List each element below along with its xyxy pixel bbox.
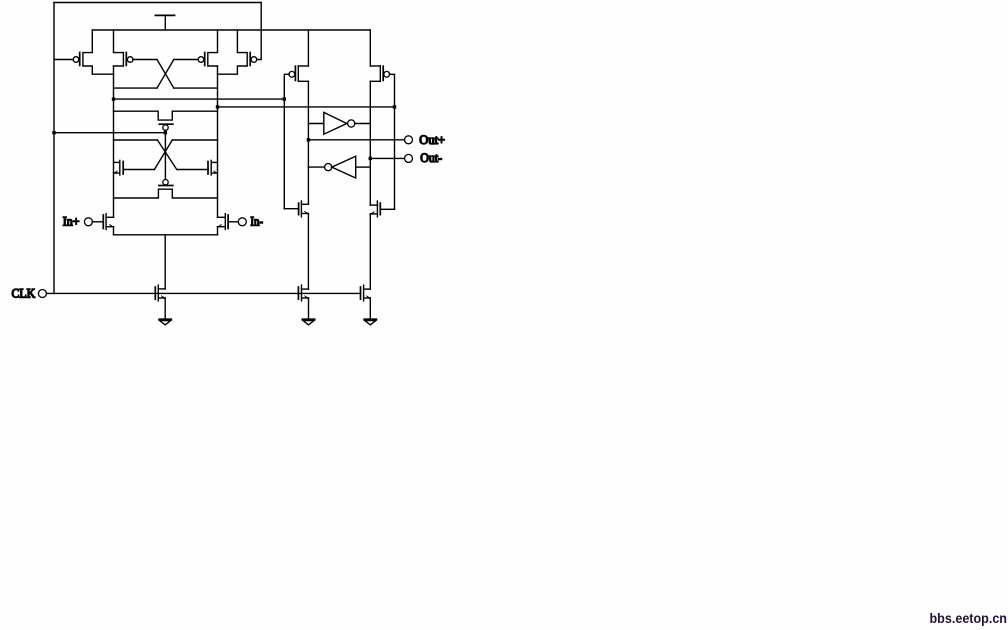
wire: M12 gate to node B bus (390, 74, 395, 209)
wire: PMOS cross-coupling X diagonal 2 (157, 60, 174, 89)
terminal CLK (38, 290, 46, 298)
wire: left CLK rail vertical (53, 3, 55, 294)
ground symbol 3 (364, 318, 376, 320)
bubble M6 gate (163, 180, 168, 185)
terminal In- (238, 218, 246, 226)
bubble U1 output (348, 120, 355, 127)
wire: latch right rail node B (217, 66, 219, 217)
wire: outer CLK loop top rail (54, 2, 261, 4)
wire: right CLK loop vertical (257, 3, 262, 60)
svg-text:In+: In+ (63, 213, 80, 228)
junction dot on CLK rail (52, 131, 55, 134)
wire: X bottom left segment to node A (114, 87, 158, 89)
transistor M2 right PMOS pair body (plus shape) (208, 30, 218, 66)
wire: right branch source down (369, 214, 371, 289)
source arrow M4 (114, 171, 118, 173)
wire: latch plate right (172, 139, 217, 141)
wire: right branch drain vertical top (369, 30, 371, 66)
transistor M1 left PMOS pair body (plus shape) (83, 30, 114, 74)
transistor M6 bottom equalizer PMOS channel (114, 189, 218, 198)
svg-text:CLK: CLK (12, 285, 36, 300)
wire: M7 source down (113, 227, 115, 235)
source arrow M5 (213, 171, 217, 173)
wire: tail down to M9 (164, 235, 166, 289)
wire: right branch vertical middle (369, 81, 371, 205)
wire: latch left rail node A (113, 66, 115, 217)
source arrow M9 (161, 296, 165, 298)
wire: M15 source to ground (369, 298, 371, 319)
inverter U2 (332, 156, 356, 178)
wire: M10 gate to node A bus (284, 74, 289, 208)
wire: VDD rail (92, 29, 370, 31)
wire: X bottom right segment to node B (174, 87, 218, 89)
svg-text:bbs.eetop.cn: bbs.eetop.cn (930, 610, 1008, 626)
junction dot Out+ tap (307, 138, 310, 141)
wire: In- gate (228, 221, 238, 223)
wire: left branch source down (307, 214, 309, 290)
terminal Out+ (405, 136, 413, 144)
transistor M3 top equalizer PMOS channel (114, 111, 218, 120)
wire: M4 gate wire (124, 169, 154, 171)
gate bar M3 (159, 123, 173, 125)
transistor M9 tail NMOS (157, 285, 159, 301)
transistor M13 second stage NMOS right (376, 201, 378, 217)
wire: CLK line (47, 292, 361, 294)
svg-text:Out-: Out- (420, 150, 442, 165)
wire: NMOS cross-coupling diagonal 2 (154, 140, 172, 170)
source arrow M13 (370, 212, 374, 214)
node A junction dot (112, 97, 115, 100)
wire: M11 gate (284, 208, 298, 210)
transistor M8 input NMOS In- (224, 214, 226, 230)
bubble M10 gate (289, 71, 295, 77)
wire: Out- (370, 157, 404, 159)
transistor M7 input NMOS In+ (105, 214, 107, 230)
ground symbol 1 (159, 318, 171, 320)
transistor M14 clocked NMOS left (301, 285, 303, 301)
wire: M14 source to ground (308, 298, 310, 319)
transistor M12 second stage PMOS right (379, 66, 381, 81)
source arrow M8 (218, 224, 222, 226)
wire: differential pair tail (114, 234, 218, 236)
wire: M1 right gate to cross X (133, 59, 157, 61)
wire: M9 source to ground (164, 298, 166, 319)
gate bar M2 right (CLK) (249, 53, 251, 66)
svg-text:In-: In- (250, 214, 263, 228)
gate bar M6 (159, 185, 173, 187)
bubble U2 output (325, 164, 332, 171)
bubble M2 right gate (251, 57, 257, 63)
terminal In+ (84, 218, 92, 226)
wire: left branch vertical middle (307, 81, 309, 204)
transistor M11 second stage NMOS left (300, 201, 302, 217)
wire: latch plate left (114, 139, 158, 141)
bubble M2 left gate (198, 57, 204, 63)
source arrow M11 (304, 211, 308, 213)
source arrow M7 (109, 224, 113, 226)
terminal Out- (405, 154, 413, 162)
wire: U1 output (355, 123, 371, 125)
wire: center vertical between equalizer gates (164, 130, 166, 179)
source arrow M14 (304, 296, 308, 298)
power VDD symbol (155, 14, 174, 16)
wire: bus node B to second stage (218, 106, 395, 108)
junction dot Out- tap (369, 157, 372, 160)
transistor M4 latch NMOS left (119, 160, 121, 175)
wire: M8 source down (217, 227, 219, 235)
transistor M10 second stage PMOS left (297, 66, 299, 81)
inverter U1 (324, 112, 347, 134)
junction dot bus1 right end (283, 97, 286, 100)
wire: Out+ (308, 139, 404, 141)
wire: bus node A to second stage (114, 98, 285, 100)
wire: PMOS cross-coupling X diagonal 1 (157, 60, 174, 89)
wire: NMOS cross-coupling diagonal 1 (157, 140, 176, 170)
ground symbol 2 (303, 318, 315, 320)
inverter U1 input wire (308, 123, 323, 125)
bubble M3 gate (163, 125, 168, 130)
wire: M13 gate (380, 208, 394, 210)
wire: M2 left gate to cross X (174, 59, 198, 61)
source arrow M15 (366, 296, 370, 298)
bubble M1 right gate (127, 57, 133, 63)
wire: CLK rail to equalizer gates (54, 132, 165, 134)
junction dot equalizer gate node (164, 131, 167, 134)
gate bar M1 right (cross-coupled) (125, 53, 127, 66)
gate bar M2 left (cross-coupled) (204, 53, 206, 66)
transistor M15 clocked NMOS right (363, 285, 365, 301)
node B junction dot (216, 105, 219, 108)
bubble M1 left gate (73, 57, 79, 63)
svg-text:Out+: Out+ (419, 132, 445, 147)
wire: In+ gate (92, 221, 103, 223)
transistor M5 latch NMOS right (210, 160, 212, 175)
inverter U2 output wire (308, 166, 324, 168)
wire: left branch drain vertical top (307, 30, 309, 66)
gate bar M1 left (CLK) (79, 53, 81, 66)
junction dot bus2 right end (393, 105, 396, 108)
wire: M5 gate wire (177, 169, 208, 171)
bubble M12 gate (384, 71, 390, 77)
wire: U2 input (356, 166, 371, 168)
wire: CLK rail to M1 left gate (54, 59, 73, 61)
